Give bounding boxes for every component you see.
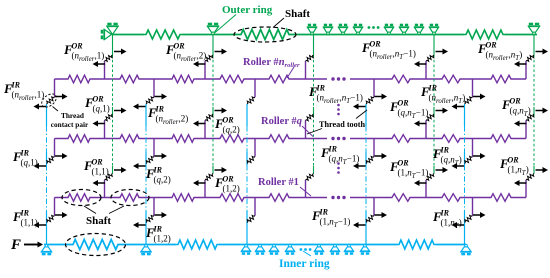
- roller #1 thread tooth to inner ring, col 2: [153, 198, 155, 216]
- force label F^IR_nr2: [147, 105, 188, 127]
- thread contact spring (inner) roller #n_roller col 5: [465, 97, 473, 104]
- outer ring line: [113, 34, 538, 36]
- thread contact spring (inner) roller #q col 1: [47, 156, 55, 163]
- thread contact spring (outer) roller #q col 2: [205, 114, 213, 121]
- svg-text:IR: IR: [440, 209, 450, 218]
- outer ring support right end: [528, 24, 540, 35]
- roller #1 thread tooth to inner ring, col 3: [254, 198, 256, 216]
- svg-text:IR: IR: [328, 145, 338, 154]
- roller #q thread tooth to outer ring, col 2: [204, 121, 206, 139]
- force label F^IR_12: [145, 225, 171, 244]
- svg-text:(q,nT ): (q,nT ): [510, 106, 531, 118]
- force label F^IR_1T: [432, 209, 462, 231]
- force label F^OR_nrT1: [361, 40, 416, 62]
- svg-text:(nroller ,1): (nroller ,1): [12, 90, 45, 102]
- svg-text:(q,1): (q,1): [93, 104, 110, 114]
- force arrows at inner contact roller #n_roller col 4: [353, 94, 387, 110]
- roller #n_roller thread tooth to outer ring, col 4: [425, 61, 427, 79]
- thread contact spring (outer) roller #n_roller col 5: [526, 55, 534, 61]
- outer ring support 2: [207, 24, 219, 35]
- svg-text:Roller #nroller: Roller #nroller: [243, 57, 300, 69]
- fixed support at outer-ring left corner (top + side): [102, 24, 119, 40]
- roller #1 thread tooth to inner ring, col 4: [373, 198, 375, 216]
- force label F^IR_q2: [145, 166, 171, 185]
- svg-text:OR: OR: [93, 95, 105, 104]
- svg-text:(1,1): (1,1): [92, 167, 109, 177]
- force arrows at outer contact roller #1 col 4: [414, 167, 448, 186]
- label Thread tooth: [307, 110, 367, 134]
- force label F^OR_11: [83, 158, 109, 177]
- roller #q thread tooth to inner ring, col 4: [373, 139, 375, 157]
- outer ring spring K1: [144, 30, 182, 39]
- roller #q row line: [55, 138, 527, 140]
- outer-ring contact vertical line 3: [313, 35, 315, 174]
- svg-text:Inner ring: Inner ring: [279, 258, 330, 270]
- force arrows at inner contact roller #q col 2: [133, 153, 167, 169]
- thread contact spring (outer) roller #q col 3: [306, 114, 314, 121]
- force arrows at outer contact roller #1 col 5: [514, 167, 548, 186]
- shaft spring on outer ring (in dashed ellipse): [234, 27, 296, 42]
- thread contact spring (inner) roller #n_roller col 3: [247, 97, 255, 104]
- inner ring support right end: [460, 244, 471, 254]
- roller #n_roller thread tooth to inner ring, col 5: [472, 79, 474, 97]
- force arrows at outer contact roller #n_roller col 1: [93, 49, 127, 68]
- force arrows at inner contact roller #1 col 1: [34, 212, 68, 228]
- inner ring small support row (right group): [314, 244, 370, 253]
- svg-text:(1,nT −1): (1,nT −1): [398, 168, 429, 180]
- svg-text:Roller #q: Roller #q: [261, 116, 302, 127]
- force arrows at inner contact roller #n_roller col 5: [452, 94, 486, 110]
- force arrows at inner contact roller #q col 5: [452, 153, 486, 169]
- outer ring small support row (right group): [384, 25, 439, 35]
- force arrows at outer contact roller #1 col 2: [193, 167, 227, 186]
- inner ring support 2: [140, 244, 151, 254]
- label Roller #n_roller: [243, 57, 300, 78]
- force arrows at inner contact roller #n_roller col 1: [34, 94, 68, 110]
- dashed ellipse around thread contact pair: [39, 91, 58, 109]
- svg-text:F: F: [10, 237, 21, 253]
- svg-text:IR: IR: [153, 166, 163, 175]
- svg-text:OR: OR: [486, 41, 498, 50]
- roller #n_roller thread tooth to outer ring, col 5: [525, 61, 527, 79]
- svg-text:(1,1): (1,1): [21, 218, 38, 228]
- thread contact spring (outer) roller #q col 4: [426, 114, 434, 121]
- inner ring small support row (left group): [241, 244, 295, 253]
- force arrows at inner contact roller #1 col 5: [452, 212, 486, 228]
- external force arrow: [24, 242, 43, 248]
- outer-ring contact vertical line 4: [433, 35, 435, 174]
- force arrows at outer contact roller #q col 2: [193, 108, 227, 127]
- roller #n_roller thread tooth to inner ring, col 1: [54, 79, 56, 97]
- force arrows at inner contact roller #q col 1: [34, 153, 68, 169]
- svg-text:OR: OR: [72, 42, 84, 51]
- roller #1 row ellipsis dots in line gap: [331, 196, 345, 199]
- svg-text:contact pair: contact pair: [51, 120, 89, 129]
- svg-text:(1,2): (1,2): [223, 184, 240, 194]
- svg-text:OR: OR: [510, 97, 522, 106]
- force arrows at inner contact roller #1 col 2: [133, 212, 167, 228]
- thread contact spring (inner) roller #q col 2: [146, 156, 154, 163]
- force label F^OR_nr2: [165, 42, 206, 64]
- vertical ellipsis dots between rows (upper): [337, 104, 340, 116]
- inner ring support left end: [41, 244, 52, 254]
- force label F^IR_q1: [12, 149, 38, 168]
- thread contact spring (inner) roller #n_roller col 2: [146, 97, 154, 104]
- roller #n_roller thread tooth to outer ring, col 3: [305, 61, 307, 79]
- roller #1 thread tooth to inner ring, col 5: [472, 198, 474, 216]
- svg-text:OR: OR: [370, 40, 382, 49]
- force label F^OR_nr1: [63, 42, 104, 64]
- svg-text:(1,nT ): (1,nT ): [508, 165, 529, 177]
- svg-text:(q,2): (q,2): [154, 175, 171, 185]
- thread contact spring (outer) roller #n_roller col 2: [205, 55, 213, 61]
- svg-text:Outer ring: Outer ring: [222, 4, 273, 16]
- thread contact spring (outer) roller #1 col 5: [526, 174, 534, 181]
- roller #q thread tooth to outer ring, col 3: [305, 121, 307, 139]
- force label F^OR_nrT: [477, 41, 522, 63]
- force arrows at inner contact roller #q col 4: [353, 153, 387, 169]
- roller #n_roller thread tooth to outer ring, col 2: [204, 61, 206, 79]
- roller #n_roller thread tooth to outer ring, col 1: [104, 61, 106, 79]
- svg-text:IR: IR: [20, 209, 30, 218]
- roller #1 thread tooth to outer ring, col 2: [204, 180, 206, 198]
- svg-text:IR: IR: [153, 225, 163, 234]
- inner-ring contact vertical line 4: [365, 104, 367, 245]
- svg-text:(nroller ,2): (nroller ,2): [174, 51, 207, 63]
- thread contact spring (outer) roller #1 col 4: [426, 174, 434, 181]
- ellipsis dots on outer-ring support row: [368, 26, 380, 29]
- svg-text:Roller #1: Roller #1: [258, 177, 299, 188]
- svg-text:OR: OR: [92, 158, 104, 167]
- force label F^OR_qT1: [389, 99, 428, 121]
- roller #q thread tooth to inner ring, col 5: [472, 139, 474, 157]
- thread contact spring (inner) roller #1 col 1: [47, 215, 55, 222]
- thread contact spring (outer) roller #1 col 2: [205, 174, 213, 181]
- thread contact spring (outer) roller #n_roller col 3: [306, 55, 314, 61]
- roller #q thread tooth to outer ring, col 1: [104, 121, 106, 139]
- svg-text:(nroller ,1): (nroller ,1): [72, 51, 105, 63]
- thread contact spring (inner) roller #n_roller col 1: [47, 97, 55, 104]
- roller #n_roller thread tooth to inner ring, col 2: [153, 79, 155, 97]
- force arrows at outer contact roller #n_roller col 2: [193, 49, 227, 68]
- force label F^IR_qT: [432, 146, 462, 168]
- ellipsis dots on inner-ring support row: [300, 248, 312, 251]
- thread contact spring (inner) roller #1 col 4: [366, 215, 374, 222]
- thread contact spring (inner) roller #n_roller col 4: [366, 97, 374, 104]
- thread contact spring (inner) roller #q col 3: [247, 156, 255, 163]
- force label F^IR_qT1: [320, 145, 359, 167]
- label Inner ring: [279, 251, 330, 270]
- roller #n_roller thread tooth to inner ring, col 4: [373, 79, 375, 97]
- thread contact spring (inner) roller #1 col 5: [465, 215, 473, 222]
- force label F^OR_1T: [499, 156, 529, 178]
- force arrows at outer contact roller #q col 5: [514, 108, 548, 127]
- outer-ring contact vertical line 2: [212, 35, 214, 174]
- outer-ring contact vertical line 1: [112, 35, 114, 174]
- force label F^OR_12: [214, 175, 240, 194]
- svg-text:OR: OR: [223, 116, 235, 125]
- force label F^IR_nr1: [3, 81, 44, 103]
- label Outer ring: [215, 4, 273, 33]
- roller #q thread tooth to outer ring, col 4: [425, 121, 427, 139]
- inner-ring contact vertical line 2: [145, 104, 147, 245]
- thread contact spring (inner) roller #1 col 2: [146, 215, 154, 222]
- svg-text:(nroller ,nT −1): (nroller ,nT −1): [370, 49, 416, 61]
- outer ring spring K2: [464, 30, 505, 39]
- svg-text:Thread tooth: Thread tooth: [319, 120, 365, 129]
- roller #q thread tooth to inner ring, col 2: [153, 139, 155, 157]
- svg-text:(q,2): (q,2): [223, 125, 240, 135]
- thread contact spring (inner) roller #q col 4: [366, 156, 374, 163]
- force label F^IR_11: [12, 209, 38, 228]
- roller #1 thread tooth to outer ring, col 3: [305, 180, 307, 198]
- vertical ellipsis dots between rows (lower): [337, 162, 340, 174]
- shaft spring on inner ring (in dashed ellipse): [66, 234, 126, 256]
- outer-ring contact vertical line 5: [533, 35, 535, 174]
- roller #q row springs: [66, 135, 513, 143]
- roller #1 thread tooth to inner ring, col 1: [54, 198, 56, 216]
- svg-text:(1,nT −1): (1,nT −1): [320, 217, 351, 229]
- roller #q thread tooth to inner ring, col 1: [54, 139, 56, 157]
- svg-text:Shaft: Shaft: [285, 8, 310, 20]
- force label F^IR_nrT1: [308, 84, 363, 106]
- thread contact spring (outer) roller #q col 5: [526, 114, 534, 121]
- svg-text:(nroller ,nT ): (nroller ,nT ): [486, 50, 523, 62]
- roller #1 thread tooth to outer ring, col 4: [425, 180, 427, 198]
- svg-text:OR: OR: [223, 175, 235, 184]
- inner-ring contact vertical line 1: [46, 104, 48, 245]
- svg-text:IR: IR: [11, 81, 21, 90]
- inner-ring contact vertical line 3: [246, 104, 248, 245]
- svg-text:OR: OR: [508, 156, 520, 165]
- svg-text:IR: IR: [316, 84, 326, 93]
- inner ring spring K3: [397, 240, 436, 249]
- svg-text:IR: IR: [428, 84, 438, 93]
- svg-text:(q,nT −1): (q,nT −1): [398, 108, 429, 120]
- roller #q row ellipsis dots in line gap: [331, 137, 345, 140]
- thread contact spring (outer) roller #n_roller col 4: [426, 55, 434, 61]
- roller #1 row line: [55, 197, 527, 199]
- thread contact spring (inner) roller #q col 5: [465, 156, 473, 163]
- thread contact spring (outer) roller #n_roller col 1: [105, 55, 113, 61]
- svg-text:OR: OR: [174, 42, 186, 51]
- force arrows at outer contact roller #q col 1: [93, 108, 127, 127]
- roller #q thread tooth to inner ring, col 3: [254, 139, 256, 157]
- force arrows at outer contact roller #n_roller col 5: [514, 49, 548, 68]
- dashed ellipse shaft section 1 on roller #1 row: [62, 190, 101, 206]
- force label F^IR_1T1: [311, 208, 350, 230]
- roller #n_roller thread tooth to inner ring, col 3: [254, 79, 256, 97]
- thread contact spring (inner) roller #1 col 3: [247, 215, 255, 222]
- svg-text:(nroller ,2): (nroller ,2): [156, 114, 189, 126]
- thread contact spring (outer) roller #1 col 3: [306, 174, 314, 181]
- external force F label: [10, 237, 21, 253]
- force label F^IR_nrT: [420, 84, 465, 106]
- roller #q thread tooth to outer ring, col 5: [525, 121, 527, 139]
- roller #n_roller row ellipsis dots in line gap: [331, 77, 345, 80]
- inner ring line: [44, 244, 466, 246]
- roller #1 thread tooth to outer ring, col 1: [104, 180, 106, 198]
- svg-text:Shaft: Shaft: [86, 215, 111, 227]
- force arrows at outer contact roller #1 col 1: [93, 167, 127, 186]
- svg-text:(q,nT −1): (q,nT −1): [329, 154, 360, 166]
- force label F^OR_q2: [214, 116, 240, 135]
- outer ring small support row (left group): [307, 25, 363, 35]
- roller #1 thread tooth to outer ring, col 5: [525, 180, 527, 198]
- label Roller #q: [261, 116, 313, 137]
- label Shaft (top): [273, 8, 310, 28]
- thread contact spring (outer) roller #1 col 1: [105, 174, 113, 181]
- svg-text:(q,1): (q,1): [21, 158, 38, 168]
- force arrows at inner contact roller #n_roller col 2: [133, 94, 167, 110]
- svg-text:Thread: Thread: [61, 111, 84, 120]
- roller #n_roller row springs: [66, 75, 513, 83]
- inner-ring contact vertical line 5: [464, 104, 466, 245]
- svg-text:(1,nT ): (1,nT ): [441, 218, 462, 230]
- dashed ellipse shaft section 2 on roller #1 row: [111, 190, 149, 206]
- svg-text:(nroller ,nT −1): (nroller ,nT −1): [317, 93, 363, 105]
- force label F^OR_1T1: [389, 159, 428, 181]
- roller #n_roller row line: [55, 78, 527, 80]
- svg-text:OR: OR: [398, 99, 410, 108]
- label Roller #1: [258, 177, 311, 196]
- svg-text:IR: IR: [440, 146, 450, 155]
- label Shaft (middle): [84, 206, 124, 227]
- roller #1 row springs: [66, 194, 513, 202]
- svg-text:(1,2): (1,2): [154, 234, 171, 244]
- force arrows at outer contact roller #q col 4: [414, 108, 448, 127]
- inner ring spring K2: [176, 240, 219, 249]
- svg-text:IR: IR: [20, 149, 30, 158]
- force label F^OR_q1: [84, 95, 110, 114]
- svg-text:IR: IR: [155, 105, 165, 114]
- force arrows at inner contact roller #1 col 4: [353, 212, 387, 228]
- force label F^OR_qT: [501, 97, 531, 119]
- thread contact spring (outer) roller #q col 1: [105, 114, 113, 121]
- force arrows at outer contact roller #n_roller col 4: [414, 49, 448, 68]
- svg-text:IR: IR: [319, 208, 329, 217]
- svg-text:OR: OR: [398, 159, 410, 168]
- svg-text:(q,nT ): (q,nT ): [441, 155, 462, 167]
- label Thread contact pair: [51, 107, 89, 130]
